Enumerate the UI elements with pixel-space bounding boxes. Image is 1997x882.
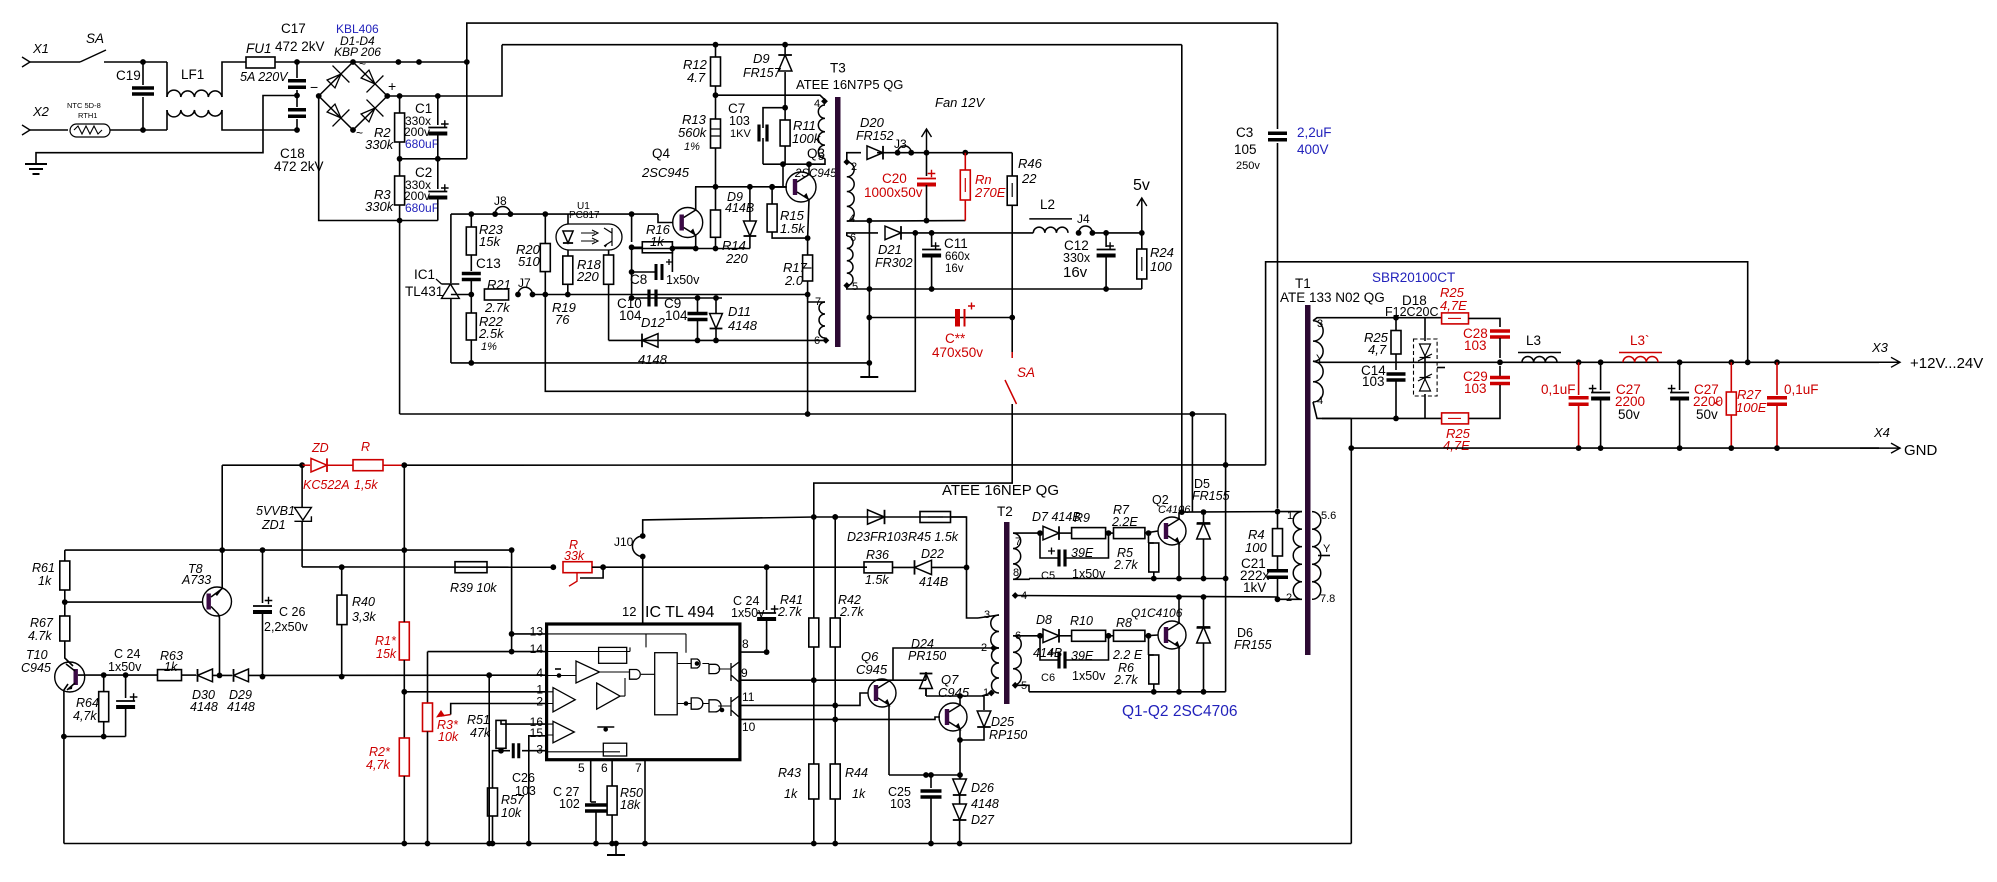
wire T8 base line [65, 601, 203, 603]
svg-text:104: 104 [619, 308, 642, 323]
svg-text:4,7E: 4,7E [1440, 298, 1467, 313]
wire R11 bottom lead [784, 146, 786, 164]
wire R50 bottom lead [611, 815, 613, 844]
wire T10 base to R63 [78, 674, 158, 676]
svg-text:LF1: LF1 [181, 67, 204, 82]
svg-text:PC817: PC817 [569, 210, 600, 221]
jumper J8 [492, 211, 498, 217]
resistor R3 330k [395, 176, 405, 205]
wire FU1 to bridge top [275, 61, 353, 63]
wire C6 branch [1039, 636, 1041, 650]
svg-text:T3: T3 [830, 61, 846, 76]
wire R12 node to D9 branch [716, 94, 786, 96]
resistor R12 4.7 [711, 57, 721, 86]
svg-text:4: 4 [849, 213, 855, 225]
svg-text:R67: R67 [30, 616, 54, 630]
node line E left [866, 315, 872, 321]
wire R15 top lead [771, 187, 773, 204]
wire T3 pin4 line B [847, 220, 966, 223]
wire T2 pin3 lead [978, 615, 999, 618]
wire divider top segment [403, 550, 405, 622]
node 33k left [550, 564, 556, 570]
capacitor C13 [462, 274, 481, 280]
svg-text:IC1: IC1 [414, 267, 435, 282]
TL494 internal output transistor 2 [731, 696, 739, 717]
wire pin2 to wiper [451, 704, 547, 715]
TL494 internal output transistor 1 [731, 662, 739, 682]
diode D9 414B [749, 187, 751, 221]
capacitor C25 103 [921, 791, 942, 797]
wire minus bus [319, 96, 438, 221]
wire LF1 upper left [166, 62, 168, 97]
wire pin4 to GND stub [1322, 417, 1351, 419]
wire opto emitter down [608, 250, 610, 255]
diode D27 4148 [953, 804, 967, 820]
capacitor C2 680uF [428, 191, 447, 193]
TL494 internal dead-time comparator [553, 721, 574, 743]
capacitor C19 [132, 88, 154, 94]
wire top long rail to C3 [467, 23, 1278, 62]
resistor R20 510 [540, 244, 550, 272]
svg-text:1x50v: 1x50v [108, 660, 142, 674]
svg-text:PR150: PR150 [908, 649, 946, 663]
resistor R13 560k [711, 119, 721, 148]
capacitor C6 1x50v [1059, 652, 1065, 669]
wire pin10 to Q7 base [740, 717, 940, 719]
svg-text:16v: 16v [945, 263, 964, 275]
switch SA standby [1011, 352, 1013, 358]
inductor LF1 upper winding [167, 90, 222, 97]
inductor L2 [1033, 227, 1068, 233]
resistor R5 2.7k [1149, 543, 1159, 572]
transformer T1 feedback winding [1312, 512, 1321, 600]
svg-text:4: 4 [536, 666, 543, 680]
node riser [464, 59, 470, 65]
wire R61 to R67 [64, 590, 66, 616]
transformer T2 winding 6-5 [1013, 636, 1021, 686]
diode D8 414B [1043, 629, 1059, 643]
wire bottom rail [64, 843, 1351, 845]
capacitor C 24 1x50v left [116, 700, 135, 702]
wire C17 top lead [296, 62, 298, 78]
resistor R57 10k [488, 788, 498, 816]
svg-text:J8: J8 [494, 194, 507, 208]
wire T1 Y output line [1313, 361, 1879, 362]
wire C20 top lead [926, 153, 928, 176]
resistor R17 2.0 [803, 255, 813, 281]
wire 5v line C [901, 232, 1033, 234]
node Rn top [962, 150, 968, 156]
wire J10 bottom [642, 557, 644, 568]
TL494 internal and gate 2 [691, 698, 703, 709]
resistor R40 3,3k [337, 595, 347, 625]
wire C24 bottom lead [125, 707, 127, 737]
transformer T2 winding 7-8 [1013, 533, 1021, 579]
node C18 bottom [294, 127, 300, 133]
node ZD anode [299, 462, 305, 468]
svg-text:+: + [388, 78, 396, 94]
svg-text:50v: 50v [1618, 407, 1640, 422]
diode D7 414B [1043, 526, 1059, 540]
node R12 bottom [713, 92, 719, 98]
wire aux return down [807, 295, 809, 415]
node C28 C29 mid [1497, 359, 1503, 365]
resistor R2* 4,7k [399, 738, 409, 776]
svg-text:103: 103 [729, 114, 750, 128]
wire C13 to R22 [470, 280, 472, 313]
resistor R7 2.2E [1114, 528, 1145, 539]
transistor Q7 C945 [939, 703, 967, 731]
svg-text:R44: R44 [845, 766, 868, 780]
wire emitter return row [889, 774, 960, 776]
resistor R41 2.7k [809, 618, 819, 647]
wire 0,1uF cap2 bottom lead [1776, 405, 1778, 448]
diode D25 RP150 [982, 696, 984, 710]
svg-text:5VVB1: 5VVB1 [256, 504, 295, 518]
node to T2 pin3 [964, 565, 970, 571]
resistor R11 100k [780, 120, 790, 146]
wire sense from output [1266, 262, 1748, 465]
wire R19 bottom [567, 284, 569, 294]
wire C27b top lead [1679, 362, 1681, 390]
node C1 top [435, 93, 441, 99]
node bridge minus [316, 93, 322, 99]
svg-text:ATEE 16NEP QG: ATEE 16NEP QG [942, 482, 1059, 499]
svg-text:1: 1 [983, 687, 989, 699]
wire emitter return row [64, 736, 126, 738]
transistor T10 C945 [55, 662, 85, 692]
svg-text:R24: R24 [1150, 245, 1174, 260]
wire mid rail to R36 [592, 566, 867, 568]
resistor R23 15k [466, 227, 476, 255]
wire R4 top lead [1277, 512, 1279, 529]
svg-text:X3: X3 [1871, 340, 1889, 355]
svg-text:Y: Y [1316, 353, 1324, 365]
wire R27 bottom lead [1730, 415, 1732, 448]
capacitor C17 [288, 81, 306, 88]
node D8 anode [1037, 633, 1043, 639]
svg-text:15: 15 [530, 726, 544, 740]
svg-text:R1*: R1* [375, 634, 397, 648]
capacitor C20 1000x50v [917, 178, 936, 180]
svg-text:1000x50v: 1000x50v [864, 185, 923, 200]
node C24 top [123, 672, 129, 678]
svg-text:660x: 660x [945, 251, 970, 263]
resistor R15 1.5k [767, 204, 777, 232]
wire T2 pin6 line [1013, 635, 1040, 637]
zener diode ZD1 5VVB1 [301, 465, 303, 507]
svg-text:330k: 330k [365, 137, 395, 152]
transistor Q6 C945 [868, 679, 896, 707]
svg-text:C**: C** [945, 331, 966, 346]
svg-text:R45 1.5k: R45 1.5k [908, 530, 959, 544]
svg-text:5v: 5v [1133, 177, 1150, 194]
svg-text:T2: T2 [997, 504, 1013, 519]
svg-text:4.7: 4.7 [687, 70, 706, 85]
svg-text:+12V...24V: +12V...24V [1910, 355, 1983, 372]
svg-text:2.2E: 2.2E [1111, 515, 1138, 529]
svg-text:2: 2 [1286, 592, 1292, 604]
svg-text:2.7k: 2.7k [1113, 673, 1138, 687]
svg-text:4148: 4148 [638, 352, 668, 367]
wire pin6 lead [611, 760, 613, 786]
wire Q7 collector rail [926, 695, 982, 697]
wire down to divider [403, 465, 405, 550]
wire pin15 to ground rail [529, 736, 547, 844]
svg-text:5A 220V: 5A 220V [240, 70, 289, 84]
wire minus bus vertical down [399, 221, 401, 415]
svg-text:103: 103 [1362, 374, 1385, 389]
pin 1 marker T2 [988, 690, 995, 697]
svg-text:47k: 47k [470, 726, 491, 740]
wire TL431 anode down [450, 298, 452, 363]
svg-text:100: 100 [1245, 540, 1267, 555]
wire R5 top lead [1148, 533, 1150, 543]
svg-text:R8: R8 [1116, 616, 1132, 630]
capacitor 0,1uF second [1767, 398, 1787, 405]
wire earth ground run [36, 96, 297, 164]
svg-text:J10: J10 [614, 535, 634, 549]
wire 33k wiper link [580, 567, 603, 578]
wire line D return [932, 288, 1142, 290]
wire C27a bottom lead [1600, 399, 1602, 448]
wire RTH1 to LF1 [110, 129, 167, 131]
wire drop to collector rail [1191, 414, 1193, 512]
svg-text:4,7E: 4,7E [1443, 438, 1470, 453]
resistor R45 1.5k [920, 512, 951, 523]
wire opto LED cathode down [567, 250, 569, 256]
svg-text:4148: 4148 [728, 318, 758, 333]
resistor R14 220 [711, 210, 721, 237]
svg-text:C26: C26 [512, 771, 535, 785]
svg-text:4,7: 4,7 [1368, 342, 1387, 357]
svg-text:T10: T10 [26, 648, 48, 662]
node Q3 emitter R17 [805, 235, 811, 241]
TL494 internal oscillator box [599, 647, 627, 663]
svg-text:R46: R46 [1018, 156, 1043, 171]
wire R14 top lead [715, 187, 717, 210]
svg-text:R57: R57 [501, 793, 525, 807]
wire R20 top lead [544, 214, 546, 243]
wire pin7 to ground rail [644, 760, 646, 844]
wire C7 top lead [763, 108, 785, 128]
capacitor C14 103 [1387, 374, 1406, 380]
svg-text:L2: L2 [1040, 197, 1055, 212]
ground bottom rail [607, 854, 625, 856]
svg-text:GND: GND [1904, 442, 1938, 459]
wire pin11 to Q6 base [740, 693, 868, 705]
wire feedback corner [951, 517, 967, 567]
resistor R42 2.7k [830, 618, 840, 647]
svg-text:4148: 4148 [190, 700, 218, 714]
svg-text:T1: T1 [1295, 276, 1311, 291]
wire R2 top lead [399, 96, 401, 113]
svg-text:FR152: FR152 [856, 129, 894, 143]
svg-text:R9: R9 [1074, 511, 1090, 525]
svg-text:R43: R43 [778, 766, 801, 780]
svg-text:1%: 1% [481, 341, 497, 353]
wire pin8 line [740, 651, 767, 653]
resistor R25 4,7E top [1442, 313, 1469, 324]
svg-text:470x50v: 470x50v [932, 345, 983, 360]
wire R17 bottom lead [807, 281, 809, 299]
wire R64 top lead [103, 675, 105, 692]
wire C12 bottom lead [1105, 256, 1107, 289]
svg-text:4: 4 [1317, 395, 1323, 407]
svg-text:C13: C13 [476, 256, 501, 271]
svg-text:D12: D12 [641, 315, 666, 330]
transformer T3 primary winding 4-5 [818, 105, 825, 159]
transistor Q3 2SC945 [786, 172, 816, 202]
TL494 internal error amplifier 1 [576, 661, 600, 683]
wire R14 bottom lead [715, 237, 717, 248]
svg-text:D26: D26 [971, 781, 994, 795]
svg-text:5: 5 [818, 151, 824, 163]
wire pin13 stub [512, 633, 547, 635]
svg-text:2: 2 [851, 161, 857, 173]
node Q3 base R15 [769, 184, 775, 190]
node T8 collector [217, 673, 223, 679]
wire R40 bottom lead [341, 625, 343, 677]
pin 6 marker [823, 337, 830, 344]
svg-text:4,7k: 4,7k [366, 758, 390, 772]
wire X1 to switch SA [30, 61, 80, 63]
wire ref line long [533, 294, 808, 296]
TL494 internal nor gate 1 [709, 664, 720, 673]
svg-text:C11: C11 [944, 236, 968, 251]
wire C29 to R25 bottom [1469, 385, 1501, 418]
wire T1 Y tap stub [1318, 555, 1330, 557]
node fan C20 [924, 150, 930, 156]
svg-text:Fan 12V: Fan 12V [935, 95, 985, 110]
wire R4 to C21 [1277, 556, 1279, 569]
wire LF1 upper right to FU1 [222, 62, 246, 97]
wire C2 top lead [437, 159, 439, 189]
inductor L3 [1522, 356, 1557, 362]
wire Rn top lead [964, 153, 966, 170]
terminal X2 [22, 125, 30, 135]
resistor R50 18k [607, 786, 617, 815]
wire emitter to bottom rail [63, 737, 65, 844]
terminal X4 GND [1860, 447, 1900, 449]
svg-text:C945: C945 [856, 662, 888, 677]
node pin3 branch [1393, 315, 1399, 321]
node top rail b [416, 59, 422, 65]
node D9 top [782, 42, 788, 48]
svg-text:D20: D20 [860, 115, 885, 130]
svg-text:3,3k: 3,3k [352, 610, 376, 624]
svg-text:2SC945: 2SC945 [641, 165, 690, 180]
capacitor C27 2200 50v first [1591, 392, 1610, 394]
jumper J3 [895, 150, 901, 156]
wire Q4 collector [695, 187, 697, 210]
TL494 internal deadtime mark [597, 726, 614, 728]
wire C26 top lead [262, 550, 264, 603]
svg-text:1k: 1k [650, 234, 665, 249]
wire C18 bottom lead [296, 119, 298, 130]
svg-text:250v: 250v [1236, 160, 1260, 172]
diode D29 4148 [234, 669, 249, 682]
wire C5 to R9 right [1065, 533, 1109, 558]
resistor R4 100 [1273, 529, 1283, 556]
svg-text:1k: 1k [164, 660, 178, 674]
svg-text:Q1-Q2 2SC4706: Q1-Q2 2SC4706 [1122, 703, 1237, 720]
node cap2 top [1774, 359, 1780, 365]
wire R40 top lead [341, 567, 343, 595]
ground T3 primary [860, 376, 878, 378]
svg-text:33k: 33k [564, 549, 585, 563]
svg-text:10k: 10k [501, 806, 522, 820]
svg-text:1x50v: 1x50v [1072, 669, 1106, 683]
wire R2 bottom lead [399, 142, 401, 159]
node C19 top [140, 59, 146, 65]
svg-text:C19: C19 [116, 68, 141, 83]
svg-text:Q4: Q4 [652, 146, 671, 161]
svg-text:C 24: C 24 [114, 647, 140, 661]
svg-text:8: 8 [742, 637, 749, 651]
wire R12 to R13 [715, 86, 717, 119]
inductor LF1 lower winding [167, 110, 222, 117]
node bridge plus [384, 93, 390, 99]
wire R25 to C14 [1395, 354, 1397, 370]
resistor R67 4.7k [60, 616, 70, 641]
wiper tail R 33k [569, 573, 577, 586]
wire D30 to D29 [213, 674, 233, 676]
wire AC top rail to riser [353, 61, 467, 63]
wire R16 left riser [631, 214, 633, 242]
wire Q2 collector up [1178, 512, 1180, 520]
wire R20 bottom lead [544, 272, 546, 295]
wire C3 top lead [1277, 23, 1279, 129]
diode D20 FR152 [867, 146, 883, 160]
pin 4 marker [821, 98, 828, 105]
node minus upper channel [1223, 576, 1229, 582]
wire R44 bottom lead [834, 799, 836, 844]
svg-text:1k: 1k [38, 574, 52, 588]
TL494 internal nor gate 2 [709, 700, 721, 712]
svg-text:X4: X4 [1873, 425, 1890, 440]
svg-text:C3: C3 [1236, 125, 1253, 140]
svg-text:R: R [361, 440, 370, 454]
node C17 C18 midpoint [294, 93, 300, 99]
shunt regulator IC1 TL431 [442, 284, 460, 298]
wire J10 up to feedback line [643, 517, 814, 536]
wire Q3 base line [695, 186, 787, 188]
wire R41 to R43 [813, 647, 815, 764]
wire R5 bottom lead [1153, 572, 1155, 579]
transformer T1 secondary winding 3-Y-4 [1313, 321, 1323, 402]
svg-text:100k: 100k [792, 131, 822, 146]
capacitor C21 222x 1kV [1267, 571, 1288, 578]
resistor R16 1k [642, 242, 672, 253]
svg-text:ATE 133 N02 QG: ATE 133 N02 QG [1280, 290, 1385, 305]
inductor L3` ferrite [1623, 356, 1658, 362]
wire T1 pin3 line [1313, 318, 1442, 321]
svg-text:X1: X1 [32, 41, 49, 56]
node aux join [805, 411, 811, 417]
svg-text:4.7k: 4.7k [28, 629, 52, 643]
svg-text:103: 103 [890, 797, 911, 811]
wire C1 top lead [437, 96, 439, 125]
resistor R9 39E [1072, 528, 1106, 539]
wire 0,1uF cap2 top lead [1776, 362, 1778, 395]
diode D5 FR155 [1203, 512, 1205, 524]
svg-text:6: 6 [601, 761, 608, 775]
svg-text:1x50v: 1x50v [731, 606, 765, 620]
svg-text:~: ~ [356, 126, 363, 140]
wire R3* bottom lead [427, 731, 429, 843]
wire C2 bottom lead [437, 198, 439, 221]
